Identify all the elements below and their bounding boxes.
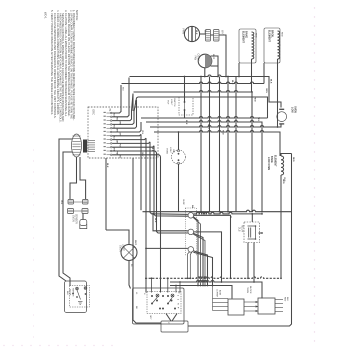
svg-text:LIGHT: LIGHT: [169, 147, 171, 154]
wire x252 drop: [251, 92, 253, 212]
wire bus 3: [133, 91, 252, 112]
svg-text:PNK: PNK: [116, 151, 118, 156]
wire drop x160 to switch box: [160, 156, 162, 292]
svg-text:RED: RED: [255, 33, 257, 38]
ERC pin header P1 pins: [104, 109, 112, 156]
svg-text:BLK: BLK: [113, 113, 115, 118]
svg-text:HOT: HOT: [167, 100, 169, 105]
svg-text:BLK: BLK: [106, 163, 108, 168]
junction dots on L1 bus: [184, 76, 240, 78]
wires supply leads into TB1: [213, 286, 229, 311]
svg-text:BLK: BLK: [185, 120, 187, 125]
svg-text:GRY: GRY: [118, 132, 120, 137]
svg-text:TAN: TAN: [116, 140, 119, 145]
wire low oven bake top: [281, 154, 292, 157]
wires surface terminal fans: [146, 214, 231, 286]
oven door switch: [65, 281, 90, 313]
svg-text:H: H: [177, 303, 179, 305]
svg-text:SENSOR: SENSOR: [75, 214, 77, 224]
svg-text:TERM: TERM: [246, 287, 248, 293]
svg-text:SWITCH: SWITCH: [173, 98, 175, 107]
wire bus 2: [121, 82, 264, 112]
wire run y122: [146, 121, 262, 212]
svg-text:SWITCH: SWITCH: [72, 288, 74, 297]
junction dots lower bus: [187, 277, 282, 286]
svg-text:BRN: BRN: [116, 128, 118, 133]
wire lower bus y285: [170, 286, 232, 299]
svg-text:OVEN: OVEN: [166, 148, 168, 155]
terminal block TB1: [228, 286, 251, 315]
svg-text:H: H: [143, 293, 145, 295]
svg-text:RED: RED: [254, 97, 256, 102]
wire lower bus y278 dashed: [145, 277, 281, 279]
svg-text:ELEMENT: ELEMENT: [242, 31, 245, 43]
svg-text:RED: RED: [134, 100, 136, 105]
junction box: [161, 321, 188, 332]
ERC pin wire labels: [113, 113, 121, 159]
terminal block TB2: [258, 298, 275, 314]
junction dot oven light sw top: [178, 131, 180, 133]
wires hot light switch leads: [184, 77, 186, 119]
svg-text:RED: RED: [116, 117, 118, 122]
wire x236 drop: [235, 77, 237, 212]
wire bake element leads: [239, 59, 252, 92]
wire low oven bake bottom: [280, 175, 282, 278]
ERC control dashed box: [88, 107, 158, 158]
svg-text:YEL: YEL: [257, 117, 259, 122]
svg-text:GRY: GRY: [141, 152, 143, 157]
svg-text:WHT: WHT: [212, 54, 214, 60]
svg-text:ELEMENT: ELEMENT: [268, 30, 271, 42]
bake element: [239, 29, 257, 63]
svg-text:FAN: FAN: [182, 29, 186, 34]
svg-text:BU: BU: [130, 264, 132, 267]
wire x133 drop to junction box: [133, 158, 161, 323]
svg-text:RED: RED: [222, 130, 224, 135]
wires oven light switch leads: [178, 132, 180, 212]
svg-text:BLK: BLK: [231, 80, 233, 85]
broil element: [264, 28, 283, 63]
svg-text:LIGHT: LIGHT: [122, 244, 124, 251]
label on x121 wire: [121, 87, 123, 92]
wire drop x141 to bus y211.7: [141, 134, 292, 211]
svg-text:ORN: ORN: [265, 88, 267, 93]
low oven light: [277, 106, 297, 124]
svg-text:WD-1: WD-1: [44, 12, 48, 19]
svg-text:WHT: WHT: [207, 124, 209, 130]
convection fan motor B2: [194, 54, 212, 68]
svg-text:OVEN: OVEN: [119, 245, 121, 252]
svg-text:ORN: ORN: [118, 121, 120, 126]
svg-text:OVEN: OVEN: [294, 106, 297, 113]
svg-text:RED: RED: [284, 297, 286, 302]
wire run y127: [150, 124, 281, 128]
svg-text:SURF: SURF: [182, 199, 184, 206]
wire right border: [188, 154, 292, 327]
wire branch to oven lamp: [106, 230, 129, 245]
svg-text:BLK: BLK: [154, 218, 156, 223]
wire run y132: [154, 131, 280, 157]
fan motor B1: [182, 26, 200, 41]
wire oven lamp bottom: [129, 261, 132, 289]
svg-text:ERC: ERC: [92, 110, 96, 116]
svg-text:FAN: FAN: [194, 56, 197, 61]
wire drop x154 to circle1: [154, 146, 188, 217]
wire run y118: [141, 117, 268, 118]
svg-text:BLK: BLK: [286, 297, 288, 301]
svg-text:P1: P1: [108, 109, 111, 113]
svg-text:P: P: [177, 292, 179, 294]
wire lower bus y282: [170, 281, 262, 299]
svg-text:BLOCK: BLOCK: [249, 286, 251, 294]
svg-text:BAKE: BAKE: [270, 156, 273, 163]
svg-text:BLK: BLK: [270, 79, 272, 84]
wire fan to L1 bus: [200, 34, 226, 77]
svg-text:SW: SW: [172, 149, 174, 153]
DLB relay: [238, 222, 260, 243]
wires DLB relay leads: [248, 214, 263, 282]
wire ribbon to door switch left pair: [59, 139, 72, 286]
svg-text:DOOR: DOOR: [69, 289, 71, 296]
svg-text:GRY: GRY: [149, 315, 151, 320]
hot light switch: [167, 97, 194, 115]
svg-text:BLU: BLU: [113, 136, 115, 141]
svg-text:DLB: DLB: [238, 227, 240, 232]
svg-text:5. VERIFY PROPER OPERATION AFT: 5. VERIFY PROPER OPERATION AFTER SERVICI…: [50, 10, 54, 115]
svg-text:LOW: LOW: [290, 107, 293, 113]
fan connector plugs: [204, 30, 224, 42]
wire ERC to oven sensor: [70, 157, 86, 199]
svg-text:WHT: WHT: [113, 147, 115, 152]
svg-text:2: 2: [177, 299, 179, 300]
wires bus to infinite switch: [151, 277, 181, 292]
wires TB2 right stubs: [275, 297, 288, 312]
wire x106 long drop: [105, 158, 107, 230]
svg-text:L1: L1: [135, 292, 137, 295]
keyboard ribbon connector P2: [72, 134, 96, 157]
svg-text:LOW OVEN: LOW OVEN: [267, 157, 270, 170]
wire colour labels: [60, 30, 294, 246]
svg-text:VIO: VIO: [118, 155, 120, 159]
svg-text:P: P: [177, 307, 179, 309]
svg-text:BLU: BLU: [151, 147, 153, 152]
wires ERC pin fan-out: [112, 94, 267, 157]
svg-text:YEL: YEL: [141, 130, 143, 135]
surface unit terminals: [182, 199, 196, 256]
svg-text:WHT: WHT: [134, 240, 136, 246]
svg-text:BA: BA: [191, 205, 194, 209]
oven sensor: [68, 200, 89, 229]
svg-text:OVEN: OVEN: [72, 215, 74, 222]
svg-text:COPPER: COPPER: [216, 289, 218, 298]
wire drop x156 to circle2: [157, 153, 188, 234]
wire conv fan to bus: [205, 56, 218, 77]
infinite switch assembly: [133, 288, 185, 324]
svg-text:RELAY: RELAY: [241, 225, 244, 233]
wire drop x150 to circle1: [150, 142, 188, 215]
low oven bake element: [267, 155, 285, 182]
svg-text:ALUM: ALUM: [219, 290, 222, 296]
wires infinite switch V leads: [166, 314, 177, 322]
svg-text:ELEMENT: ELEMENT: [273, 155, 276, 167]
svg-text:YEL: YEL: [60, 200, 62, 205]
wire bus L1 top: [129, 75, 281, 111]
wire drop x146 to switch box: [145, 138, 147, 292]
svg-text:BLK: BLK: [195, 30, 197, 35]
svg-text:RED: RED: [292, 157, 294, 162]
wires TB1 to TB2 jumpers: [244, 301, 258, 312]
svg-text:BLK: BLK: [66, 291, 68, 295]
oven lamp: [119, 244, 138, 261]
svg-text:1: 1: [177, 295, 179, 296]
svg-text:PUR: PUR: [118, 143, 120, 148]
svg-text:RED: RED: [282, 179, 284, 184]
svg-text:RED: RED: [281, 32, 283, 37]
wire broil element leads: [264, 59, 278, 127]
svg-text:BLK: BLK: [121, 87, 123, 92]
svg-text:BK: BK: [135, 306, 137, 309]
oven light switch: [166, 147, 186, 164]
junction dots surface wires: [145, 213, 154, 249]
junction dots mid bus: [200, 91, 263, 213]
svg-text:LIGHT: LIGHT: [170, 99, 172, 106]
wire circle1 to DLB bus: [194, 212, 263, 214]
wire mid vertical bundle: [201, 77, 228, 212]
notice text block: [44, 10, 80, 123]
